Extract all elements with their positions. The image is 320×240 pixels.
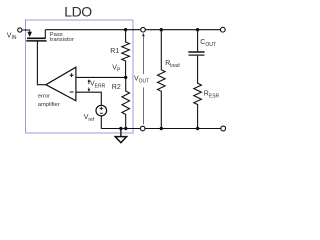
VIN terminal [18, 28, 22, 32]
wire minus input to Vref [76, 92, 101, 105]
svg-text:R1: R1 [110, 48, 119, 55]
node VOUT arrow shaft lower [142, 88, 144, 125]
node VERR down arrow [88, 88, 90, 90]
terminal VOUT top [141, 27, 146, 32]
transistor Q1 drain lead [44, 30, 46, 39]
junction dot ground tap [119, 127, 122, 130]
ground [120, 129, 122, 137]
transistor Q1 gate bar [26, 40, 46, 42]
junction dot R2 bottom [124, 127, 127, 130]
node VOUT arrow shaft upper [142, 36, 144, 74]
transistor Q1 channel bar [27, 37, 46, 39]
terminal VOUT bottom [140, 126, 145, 131]
terminal top right [220, 27, 225, 32]
junction dot Rload top [160, 28, 163, 31]
voltage source Vref [96, 105, 107, 116]
junction dot Resr bottom [196, 127, 199, 130]
wire Vref bottom to ground rail [100, 116, 102, 129]
wire bottom rail [101, 128, 221, 130]
resistor Resr [194, 56, 202, 129]
terminal bottom right [221, 126, 226, 131]
svg-text:error: error [38, 94, 50, 100]
junction dot Cout top [196, 28, 199, 31]
wire plus input to VP node [76, 76, 126, 78]
svg-text:R2: R2 [112, 84, 121, 91]
op-amp plus input sign [70, 73, 74, 77]
resistor R2 [122, 77, 130, 128]
node VERR up arrow [88, 81, 90, 84]
resistor R1 [122, 30, 130, 78]
junction dot Rload bottom [160, 127, 163, 130]
svg-text:transistor: transistor [50, 37, 74, 43]
resistor Rload [158, 30, 166, 129]
junction dot R1 top [124, 28, 127, 31]
op-amp minus input sign [70, 91, 74, 93]
capacitor Cout plates [188, 51, 204, 53]
svg-text:amplifier: amplifier [38, 102, 60, 108]
transistor Q1 source arrow [27, 32, 32, 37]
op-amp U1 error amplifier [46, 67, 76, 101]
svg-text:LDO: LDO [64, 4, 92, 20]
LDO dotted box [25, 20, 133, 133]
wire top rail [45, 29, 220, 31]
capacitor Cout lead top [197, 30, 199, 52]
wire gate lead down to amplifier output [37, 41, 46, 85]
node VOUT arrow head [142, 33, 145, 36]
wire VIN to pass transistor source [22, 30, 30, 32]
node VP junction dot [124, 76, 127, 79]
